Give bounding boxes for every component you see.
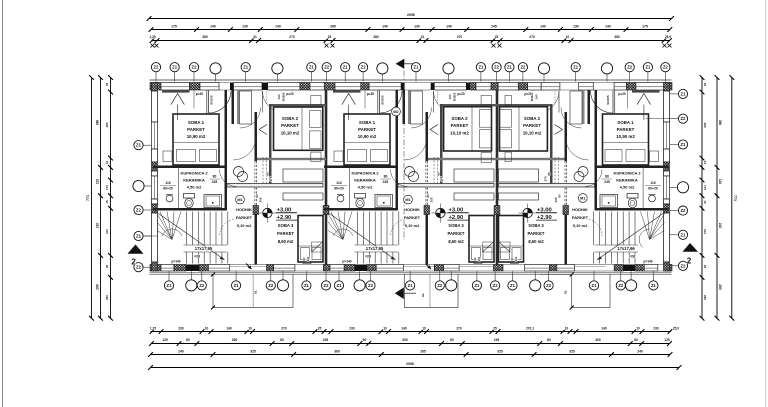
svg-text:Z2: Z2: [368, 283, 374, 288]
soba1 nightstand: [334, 151, 343, 162]
bottom wall segment: [355, 265, 367, 272]
soba3 wardrobe lower: [454, 193, 494, 200]
svg-text:p=20: p=20: [196, 92, 204, 96]
soba1 nightstand: [163, 151, 172, 162]
svg-text:Z1: Z1: [309, 65, 315, 70]
axis circle bottom Z2 x=270.8: [266, 281, 275, 290]
right wall segment: [664, 171, 670, 176]
svg-text:290: 290: [105, 295, 109, 300]
corridor wall pocket dashed: [254, 161, 256, 208]
svg-text:10,90 m2: 10,90 m2: [187, 134, 206, 139]
corridor wall lower: [255, 208, 258, 265]
right wall column (hatched): [664, 204, 670, 213]
bottom wall column (hatched): [434, 265, 443, 272]
svg-text:25: 25: [703, 265, 707, 269]
svg-text:SOBA 1: SOBA 1: [188, 120, 205, 125]
top wall window: [579, 83, 594, 91]
axis circle right Z2 y=265.8: [678, 261, 687, 270]
building top wall outer face line: [150, 79, 672, 81]
corridor/soba3 divider wall: [227, 184, 323, 188]
entry vestibule wall left: [377, 90, 379, 124]
svg-text:KUPAONICA 2: KUPAONICA 2: [351, 171, 379, 176]
unit2 soba2 bed pillows: [480, 110, 492, 128]
svg-text:380: 380: [96, 120, 100, 126]
window sill interior line: [333, 90, 361, 92]
axis circle bottom blank x=359.6: [354, 280, 365, 291]
soba3 bed: [469, 216, 494, 263]
top wall column (hatched): [627, 83, 636, 91]
svg-text:25: 25: [105, 83, 109, 87]
top wall column (hatched): [150, 83, 161, 91]
unit1 M1 circle: [236, 195, 245, 204]
svg-text:10: 10: [248, 326, 252, 330]
right dimension chain line 3: [701, 78, 703, 319]
axis circle top Z2 x=363.1: [359, 63, 368, 72]
top wall window: [161, 83, 190, 91]
left wall segment: [152, 91, 158, 122]
svg-text:240: 240: [637, 349, 643, 353]
bottom wall sliding door: [403, 264, 434, 266]
party wall x=495.7: [496, 90, 499, 265]
svg-text:15: 15: [105, 200, 109, 204]
svg-text:140: 140: [446, 24, 452, 28]
bottom wall column (hatched): [344, 265, 355, 272]
svg-text:10: 10: [636, 326, 640, 330]
svg-text:p=20: p=20: [286, 92, 294, 96]
svg-text:175: 175: [642, 24, 648, 28]
axis circle bottom Z2 x=620.8: [616, 281, 625, 290]
bottom dimension chain line 2: [151, 343, 669, 345]
axis circle bottom Z2 x=201.8: [197, 281, 206, 290]
stairs landing lines: [184, 244, 228, 246]
svg-text:KUPAONICA 2: KUPAONICA 2: [613, 171, 641, 176]
axis circle top Z1 x=575.7: [571, 63, 580, 72]
top wall window: [310, 83, 325, 91]
svg-text:1,25: 1,25: [149, 35, 155, 39]
shower tray: [600, 195, 618, 208]
svg-text:UL: UL: [564, 290, 568, 294]
soba2 window reveal dashed: [558, 91, 560, 104]
bottom wall door opening: [503, 264, 525, 266]
svg-text:771: 771: [733, 195, 737, 201]
unit1 soba2 bed pillows: [310, 111, 321, 128]
axis circle top Z2 x=194: [189, 63, 198, 72]
svg-text:4,50 m2: 4,50 m2: [620, 185, 635, 190]
svg-text:125: 125: [162, 338, 168, 342]
svg-text:SOBA 1: SOBA 1: [617, 120, 634, 125]
soba2 bottom wall: [496, 158, 565, 160]
bottom wall column (hatched): [150, 265, 161, 272]
unit2 M1 circle: [404, 195, 413, 204]
svg-text:17x17,65: 17x17,65: [195, 246, 213, 251]
left wall column (hatched): [152, 162, 158, 171]
bottom wall segment: [186, 265, 199, 272]
svg-text:80: 80: [547, 338, 551, 342]
svg-text:25: 25: [105, 265, 109, 269]
svg-text:Z2: Z2: [627, 65, 633, 70]
top wall window: [369, 83, 401, 91]
svg-text:Z1: Z1: [136, 143, 142, 148]
svg-text:Z2: Z2: [681, 263, 687, 268]
svg-text:130: 130: [414, 24, 420, 28]
axis circle bottom blank x=191.3: [186, 280, 197, 291]
top wall door opening: [560, 82, 579, 84]
top dimension chain line 2: [151, 29, 670, 31]
svg-text:60+20: 60+20: [334, 187, 344, 191]
soba2 door arc: [404, 137, 427, 160]
soba2 window reveal dashed: [262, 91, 264, 104]
axis circle bottom Z1 x=594: [589, 281, 598, 290]
top wall column (hatched): [300, 83, 310, 91]
bottom wall column (hatched): [323, 265, 330, 272]
axis circle top Z2 x=522.9: [518, 63, 527, 72]
svg-text:80: 80: [605, 175, 609, 179]
axis circle top blank x=215.5: [210, 63, 221, 74]
svg-text:90/205: 90/205: [210, 95, 214, 105]
soba2 left wall: [550, 104, 553, 160]
svg-text:=28: =28: [365, 255, 371, 259]
top center arrow: [396, 59, 405, 69]
corridor upper wall: [237, 90, 240, 124]
left wall column (hatched): [152, 83, 158, 92]
left dimension chain line 3: [110, 78, 112, 319]
svg-text:M1: M1: [237, 198, 242, 202]
bottom wall window: [274, 265, 295, 272]
svg-text:HODNIK: HODNIK: [572, 207, 588, 212]
top wall segment: [401, 83, 405, 91]
svg-text:325: 325: [497, 349, 503, 353]
corridor wall hatch column: [563, 206, 569, 215]
corridor wall upper: [255, 112, 258, 161]
svg-text:Z1: Z1: [136, 234, 142, 239]
svg-text:Z1: Z1: [167, 283, 173, 288]
svg-text:2: 2: [687, 257, 692, 266]
stairs walk line arrow: [220, 257, 226, 261]
svg-text:4,50 m2: 4,50 m2: [358, 185, 373, 190]
soba3 bed pillows: [301, 248, 310, 260]
unit3 soba2 nightstands: [505, 96, 512, 106]
axis circle bottom Z1 x=653.4: [649, 281, 658, 290]
hodnik door arc dashed: [391, 219, 408, 236]
svg-text:245: 245: [604, 180, 610, 184]
hall closet: [570, 91, 582, 124]
svg-text:M1: M1: [580, 197, 585, 201]
svg-text:p=140: p=140: [643, 260, 652, 264]
svg-text:10: 10: [422, 326, 426, 330]
top wall door opening: [593, 82, 614, 84]
left wall segment: [152, 149, 158, 162]
axis circle right blank y=187.3: [677, 182, 688, 193]
soba3 corner diagonal: [483, 242, 494, 252]
top dimension line total 2096: [149, 18, 672, 20]
left wall column (hatched): [152, 262, 158, 271]
bathroom bottom wall: [595, 208, 669, 211]
svg-text:175: 175: [703, 185, 707, 190]
stairs straight treads lower: [186, 252, 188, 264]
svg-text:10,10 m2: 10,10 m2: [450, 131, 469, 136]
svg-text:Z2: Z2: [618, 283, 624, 288]
axis circle top Z1 x=245.7: [241, 63, 250, 72]
svg-text:Z1: Z1: [681, 232, 687, 237]
svg-text:90: 90: [426, 194, 430, 198]
bottom wall window: [161, 265, 174, 272]
soba2 left wall: [440, 104, 443, 160]
svg-text:771: 771: [86, 195, 90, 201]
entry vestibule wall right: [232, 90, 235, 124]
soba2 wall stub to divider: [550, 160, 553, 187]
soba2 balcony door leaf: [262, 91, 264, 113]
svg-text:60: 60: [634, 338, 638, 342]
svg-text:380: 380: [614, 35, 620, 39]
axis circle top Z1 x=311.3: [307, 63, 316, 72]
svg-text:2096: 2096: [406, 362, 414, 366]
svg-text:25: 25: [703, 83, 707, 87]
stairs winder fan: [650, 214, 665, 240]
window reveal line: [364, 90, 366, 109]
right wall column (hatched): [664, 162, 670, 171]
svg-text:2: 2: [131, 258, 136, 267]
soba2 bottom wall: [257, 158, 326, 160]
entry door arc: [380, 91, 403, 114]
svg-text:=28: =28: [194, 255, 200, 259]
window chevron: [637, 94, 651, 105]
soba1/bathroom divider wall: [324, 166, 398, 169]
party wall x=324.7: [325, 90, 328, 265]
svg-text:17x17,66: 17x17,66: [617, 246, 635, 251]
soba2 door arc: [566, 137, 589, 160]
svg-text:SOBA 3: SOBA 3: [528, 223, 544, 228]
svg-text:4,50 m2: 4,50 m2: [187, 185, 202, 190]
soba2 wall stub to divider: [440, 160, 443, 187]
top dimension chain line 3: [152, 40, 670, 42]
stairs straight treads upper: [634, 212, 636, 246]
svg-text:290: 290: [703, 295, 707, 300]
svg-text:140: 140: [535, 94, 539, 99]
top wall column (hatched): [667, 83, 672, 91]
bottom wall window: [444, 265, 459, 272]
corridor wall lower: [565, 208, 568, 265]
top wall door opening: [219, 82, 230, 84]
svg-text:265: 265: [420, 349, 426, 353]
svg-text:385: 385: [703, 122, 707, 127]
svg-text:270: 270: [289, 35, 295, 39]
axis circle top Z1 x=174.6: [170, 63, 179, 72]
svg-text:Z1: Z1: [172, 65, 178, 70]
washbasin: [337, 195, 344, 202]
corridor upper wall: [582, 90, 585, 124]
svg-text:Z1: Z1: [474, 283, 480, 288]
svg-text:SOBA 3: SOBA 3: [448, 223, 464, 228]
soba3 sliding door dashed: [262, 157, 264, 185]
soba3 sliding door dashed: [558, 157, 560, 185]
shower tray: [375, 195, 393, 208]
top wall window: [234, 83, 263, 91]
svg-text:Z1: Z1: [681, 91, 687, 96]
top wall column (hatched): [470, 83, 476, 91]
svg-text:10,10 m2: 10,10 m2: [281, 131, 300, 136]
soba2 bottom wall: [428, 158, 497, 160]
svg-text:95: 95: [547, 172, 551, 176]
terrace edge lines below bottom wall: [150, 271, 672, 273]
axis circle top blank x=544: [538, 63, 549, 74]
axis circle bottom Z2 x=370.5: [366, 281, 375, 290]
svg-text:110: 110: [718, 179, 722, 184]
axis circle bottom Z1 x=236.1: [232, 281, 241, 290]
soba3 wardrobe lower: [499, 193, 539, 200]
soba2 door arc: [233, 137, 256, 160]
svg-text:140: 140: [210, 24, 216, 28]
svg-text:Z1: Z1: [414, 65, 420, 70]
axis circle top Z1 x=480.9: [476, 63, 485, 72]
corridor wall hatch column: [253, 206, 259, 215]
svg-text:140: 140: [540, 24, 546, 28]
svg-text:Z1: Z1: [337, 283, 343, 288]
bottom wall column (hatched): [267, 265, 274, 272]
corridor wall lower: [426, 208, 429, 265]
axis circle top blank x=277.4: [272, 63, 283, 74]
top wall window: [434, 83, 466, 91]
axis circle right Z1 y=144.5: [678, 140, 687, 149]
top wall column (hatched): [361, 83, 369, 91]
axis circle left Z2 y=267.2: [134, 263, 143, 272]
axis circle bottom blank x=631.1: [626, 280, 637, 291]
bottom wall column (hatched): [174, 265, 186, 272]
sheet border right: [765, 0, 767, 407]
axis circle top blank x=382.4: [377, 63, 388, 74]
unit3 soba2 bed horizontal: [500, 107, 548, 151]
entry vestibule wall left: [206, 90, 208, 124]
soba2 balcony door leaf: [558, 91, 560, 113]
svg-text:Z2: Z2: [324, 283, 330, 288]
svg-text:380: 380: [202, 35, 208, 39]
svg-text:2096: 2096: [407, 13, 415, 17]
axis circle bottom Z1 x=306.4: [302, 281, 311, 290]
svg-text:10: 10: [383, 326, 387, 330]
soba2 window reveal dashed: [433, 91, 435, 104]
bottom wall window: [330, 265, 344, 272]
stairs walk line arrow: [597, 257, 603, 261]
soba3 wardrobe lower: [283, 193, 323, 200]
axis circle top blank x=448.5: [443, 63, 454, 74]
svg-text:PARKET: PARKET: [528, 231, 545, 236]
svg-text:110: 110: [336, 181, 342, 185]
section arrow on bottom wall left: [246, 264, 252, 270]
section arrow on bottom wall center: [426, 264, 432, 270]
soba1 right wall: [225, 90, 228, 211]
water heater circles: [578, 167, 588, 177]
svg-text:245: 245: [212, 180, 218, 184]
axis circle bottom Z1 x=169: [164, 281, 173, 290]
svg-text:10,10 m2: 10,10 m2: [523, 131, 542, 136]
soba3 wardrobe upper: [499, 169, 539, 182]
svg-text:Z2: Z2: [199, 283, 205, 288]
svg-text:31: 31: [253, 35, 257, 39]
bottom wall sliding door: [230, 264, 267, 266]
unit1 soba2 bed horizontal: [274, 107, 323, 150]
axis circle left Z1 y=236: [134, 231, 143, 240]
top wall segment: [466, 83, 470, 91]
bottom wall door opening: [295, 264, 323, 266]
axis circle left Z2 y=210: [134, 205, 143, 214]
bottom wall column (hatched): [635, 265, 644, 272]
svg-text:205: 205: [259, 197, 263, 202]
left north triangle: [128, 245, 144, 254]
entry door leaf: [379, 91, 381, 114]
axis circle top Z2 x=665.4: [661, 63, 670, 72]
svg-text:HODNIK: HODNIK: [404, 207, 420, 212]
stairs winder fan: [328, 214, 343, 240]
svg-text:Z1: Z1: [343, 65, 349, 70]
bottom wall window: [376, 265, 403, 272]
svg-text:95: 95: [437, 172, 441, 176]
stairs landing lines: [355, 244, 399, 246]
svg-text:PARKET: PARKET: [451, 123, 469, 128]
svg-text:140: 140: [277, 94, 281, 99]
svg-text:=28: =28: [629, 255, 635, 259]
unit1 soba2 nightstands: [311, 96, 321, 106]
svg-text:p=140: p=140: [171, 260, 180, 264]
soba2 top wall: [496, 104, 553, 106]
svg-text:285: 285: [330, 24, 336, 28]
corridor wall pocket dashed: [425, 161, 427, 208]
bathroom door arc: [585, 170, 602, 187]
water heater circles: [234, 167, 244, 177]
inner hall door arc: [561, 108, 582, 129]
soba1 bed pillows: [348, 150, 367, 162]
svg-text:PARKET: PARKET: [404, 215, 421, 220]
level marker symbol: [523, 208, 532, 217]
level marker symbol: [263, 208, 272, 217]
top wall window: [476, 83, 491, 91]
toilet: [355, 194, 366, 199]
svg-text:10: 10: [566, 35, 570, 39]
left wall segment: [152, 171, 158, 176]
svg-text:60: 60: [363, 338, 367, 342]
entry door leaf: [208, 91, 210, 114]
top wall window: [498, 83, 518, 91]
axis circle bottom Z1 x=476.9: [472, 281, 481, 290]
svg-text:240: 240: [477, 256, 481, 261]
left dimension line total 771: [91, 78, 93, 319]
soba3 wardrobe upper: [454, 169, 494, 182]
soba2 balcony door arc: [538, 91, 560, 113]
soba3 bed pillows: [472, 248, 481, 260]
soba2 door swing chevron: [555, 125, 563, 130]
bottom wall column (hatched): [614, 265, 623, 272]
toilet: [184, 194, 195, 199]
svg-text:15: 15: [703, 161, 707, 165]
svg-text:M1: M1: [405, 198, 410, 202]
axis circle right Z1 y=234.8: [678, 230, 687, 239]
svg-text:25: 25: [328, 35, 332, 39]
svg-text:140: 140: [605, 24, 611, 28]
soba2 wall stub to divider: [269, 160, 272, 187]
svg-text:175: 175: [171, 24, 177, 28]
bottom dimension chain line 1: [151, 331, 672, 333]
top wall window: [528, 83, 542, 91]
soba1/bathroom divider wall: [153, 166, 227, 169]
right wall column (hatched): [664, 262, 670, 271]
svg-text:240: 240: [306, 256, 310, 261]
svg-text:10: 10: [565, 326, 569, 330]
soba1/bathroom divider wall: [595, 166, 669, 169]
level marker symbol: [436, 208, 445, 217]
svg-text:Z1: Z1: [645, 65, 651, 70]
bottom dimension total line 2096: [151, 367, 680, 369]
axis circle top Z2 x=326.7: [322, 63, 331, 72]
svg-text:5,10 m2: 5,10 m2: [573, 223, 588, 228]
bathroom niche partition: [642, 166, 644, 208]
